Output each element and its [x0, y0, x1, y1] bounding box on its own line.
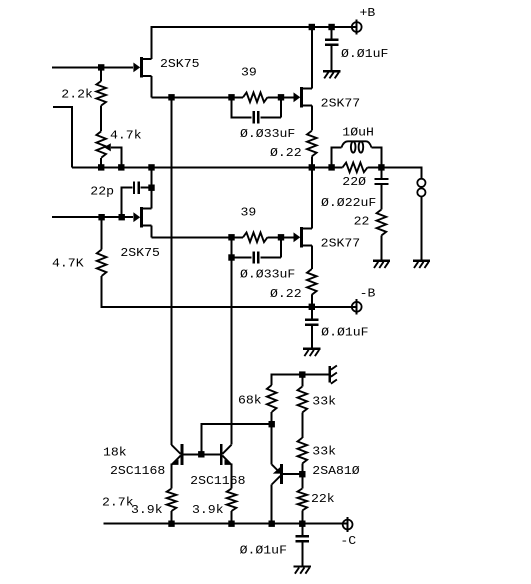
node +B junction dot 1 — [309, 24, 315, 30]
node bottom rail dot L — [228, 521, 234, 527]
resistor R4 220 — [343, 163, 368, 173]
wire 0.22 bottom lead — [311, 156, 313, 167]
wire bottom cap to ground — [301, 542, 303, 565]
inductor L1 10uH — [332, 141, 382, 167]
svg-text:3.9k: 3.9k — [192, 503, 224, 517]
wire FET1 source down — [151, 76, 153, 98]
wire cap to 22 resistor — [380, 185, 382, 210]
transistor Q4 2SK77 (lower) — [294, 227, 312, 248]
wire long vertical 1 — [171, 97, 173, 445]
wire left emitter down — [171, 464, 173, 489]
wire -B cap to ground — [311, 326, 313, 348]
resistor R12 3.9k (left) — [167, 489, 177, 512]
svg-text:18k: 18k — [103, 446, 127, 460]
resistor R1 2.2k — [96, 81, 106, 106]
transistor Q5 2SC1168 (left) — [171, 444, 182, 465]
svg-text:Ø.Ø33uF: Ø.Ø33uF — [240, 268, 295, 282]
svg-text:4.7K: 4.7K — [52, 257, 84, 271]
svg-text:Ø.22: Ø.22 — [270, 146, 302, 160]
node bottom rail dot N — [299, 521, 305, 527]
wire 3.9k left to rail — [171, 511, 173, 524]
wire long vertical 2 — [231, 237, 233, 444]
svg-text:2SC1168: 2SC1168 — [190, 474, 245, 488]
wire cap to ground — [331, 46, 333, 70]
svg-text:2SK75: 2SK75 — [160, 57, 200, 71]
node input1/2.2k dot — [98, 64, 104, 70]
wire pot wiper — [111, 147, 122, 167]
wire FET3 drain up — [311, 27, 313, 89]
capacitor 0.01uF (top) — [325, 40, 339, 45]
ground (bottom) — [294, 567, 311, 574]
wire FET4 drain up — [311, 167, 313, 228]
svg-text:1ØuH: 1ØuH — [342, 126, 374, 140]
svg-text:Ø.Ø1uF: Ø.Ø1uF — [240, 544, 287, 558]
wire 22k to rail — [301, 511, 303, 524]
pot wiper arrow — [104, 143, 111, 151]
svg-text:Ø.Ø33uF: Ø.Ø33uF — [240, 127, 295, 141]
wire 2SA810 collector down — [271, 485, 273, 524]
wire 39 right lead — [268, 96, 294, 98]
svg-text:39: 39 — [241, 206, 257, 220]
svg-text:22Ø: 22Ø — [342, 175, 366, 189]
svg-text:39: 39 — [241, 66, 257, 80]
node bracket dot — [228, 254, 234, 260]
transistor Q2 2SK75 (lower) — [133, 207, 151, 228]
wire pot bottom lead — [100, 158, 102, 168]
svg-text:-B: -B — [360, 287, 376, 301]
capacitor 0.033uF (lower) — [254, 251, 259, 263]
node gate bus dot D — [168, 94, 174, 100]
node rail dot A — [98, 164, 104, 170]
capacitor C 22p bracket left — [122, 188, 133, 218]
node lower gate bus dot J — [278, 234, 284, 240]
transistor Q1 2SK75 (upper) — [133, 57, 151, 78]
svg-text:Ø.22: Ø.22 — [270, 287, 302, 301]
node lower gate bus dot I — [228, 234, 234, 240]
resistor R9 68k — [267, 385, 277, 412]
node -B rail dot — [309, 304, 315, 310]
resistor R5 22 — [377, 210, 387, 236]
capacitor 22p — [134, 182, 139, 194]
svg-text:Ø.Ø1uF: Ø.Ø1uF — [341, 47, 388, 61]
wire FET2 source down — [151, 226, 153, 238]
wire 0.033uF bracket (upper) — [232, 97, 252, 117]
resistor R3 0.22 (upper) — [307, 131, 317, 157]
wire bottom cap lead — [301, 524, 303, 535]
capacitor 0.01uF (mid) — [305, 320, 319, 325]
svg-text:33k: 33k — [312, 394, 336, 408]
node rail dot inductor left — [328, 164, 334, 170]
wire 33k link — [301, 413, 303, 438]
svg-text:2.7k: 2.7k — [102, 496, 134, 510]
node 68k/wire dot — [269, 421, 275, 427]
wire bias feed — [201, 424, 271, 454]
node gate bus dot F — [278, 94, 284, 100]
node rail dot inductor right — [378, 164, 384, 170]
resistor R13 3.9k (right) — [227, 489, 237, 512]
ground (-B bypass) — [303, 349, 320, 356]
node 22p/drain dot — [148, 185, 154, 191]
wire 0.033uF bracket (lower) — [232, 257, 252, 259]
wire base bus — [183, 453, 220, 455]
ground (bias, rotated) — [330, 366, 337, 384]
node rail dot B — [118, 164, 124, 170]
node bias top dot — [299, 371, 305, 377]
wire 0.22 to -B rail — [311, 295, 313, 307]
svg-text:3.9k: 3.9k — [131, 503, 163, 517]
wire jack to ground — [420, 197, 422, 260]
wire bottom rail — [103, 523, 347, 525]
resistor R2 39 (upper) — [243, 93, 268, 103]
node bottom rail dot M — [269, 521, 275, 527]
output jack circle 2 — [417, 188, 425, 196]
resistor R8 0.22 (lower) — [307, 269, 317, 295]
resistor R7 39 (lower) — [243, 233, 268, 243]
svg-text:4.7k: 4.7k — [110, 129, 142, 143]
svg-text:2SK75: 2SK75 — [120, 246, 159, 260]
svg-text:Ø.Ø1uF: Ø.Ø1uF — [321, 326, 368, 340]
svg-text:22k: 22k — [311, 492, 335, 506]
capacitor 0.01uF (bottom) — [295, 536, 309, 541]
wire 2SA810 base — [283, 473, 303, 475]
wire 3.9k right to rail — [231, 511, 233, 524]
capacitor 0.033uF (upper) — [254, 111, 259, 123]
transistor Q6 2SC1168 (right) — [221, 444, 232, 465]
svg-text:68k: 68k — [238, 394, 262, 408]
node +B junction dot 2 — [328, 24, 334, 30]
wire rail to output — [368, 167, 422, 178]
wire 2.2k top lead — [100, 67, 102, 81]
resistor R11 33k (lower) — [298, 438, 308, 464]
wire lower gate bus y237 — [152, 236, 244, 238]
node rail dot FET3/4 — [309, 164, 315, 170]
wire 22 to ground — [380, 236, 382, 260]
svg-text:33k: 33k — [312, 445, 336, 459]
node input3 dot H — [119, 214, 125, 220]
ground (zobel) — [373, 261, 390, 268]
ground (output) — [413, 261, 430, 268]
svg-text:22p: 22p — [90, 185, 114, 199]
terminal -B — [352, 299, 362, 314]
node bottom rail dot K — [168, 521, 174, 527]
wire cap lead — [331, 27, 333, 39]
wire 4.7K to -B rail — [102, 276, 357, 307]
node input3 dot G — [98, 214, 104, 220]
capacitor 0.022uF — [375, 179, 389, 184]
svg-text:+B: +B — [360, 6, 376, 20]
svg-text:2.2k: 2.2k — [61, 88, 93, 102]
svg-text:2SK77: 2SK77 — [321, 236, 361, 250]
wire 2.2k to pot — [100, 106, 102, 132]
node 2SA810 base dot — [299, 471, 305, 477]
wire +B rail — [152, 27, 357, 59]
wire FET2 drain up to rail — [151, 167, 153, 208]
resistor R14 22k — [298, 489, 308, 511]
resistor R6 4.7K — [101, 217, 103, 249]
node base bus dot — [198, 451, 204, 457]
wire input 3 — [52, 216, 133, 218]
wire input 1 — [52, 66, 133, 68]
wire FET4 source down — [311, 246, 313, 269]
wire 39 lower right lead — [268, 236, 294, 238]
output jack circle 1 — [417, 179, 425, 187]
wire upper gate bus y97 — [152, 96, 244, 98]
wire 33k to base node — [301, 464, 303, 489]
terminal -C — [343, 517, 353, 532]
svg-text:-C: -C — [340, 534, 356, 548]
svg-text:2SA81Ø: 2SA81Ø — [312, 464, 359, 478]
ground (top bypass) — [323, 71, 340, 78]
svg-text:22: 22 — [354, 215, 370, 229]
wire zobel cap lead — [380, 167, 382, 178]
svg-text:Ø.Ø22uF: Ø.Ø22uF — [321, 196, 376, 210]
svg-text:2SC1168: 2SC1168 — [110, 464, 165, 478]
transistor Q7 2SA810 — [272, 464, 282, 485]
wire right emitter down — [231, 464, 233, 489]
wire bias top rail — [272, 375, 329, 385]
node gate bus dot E — [228, 94, 234, 100]
wire -B cap lead — [311, 307, 313, 319]
transistor Q3 2SK77 (upper) — [294, 87, 312, 108]
resistor VR1 4.7k pot — [96, 131, 106, 158]
wire mid rail left part — [72, 166, 342, 168]
wire 68k to emitter — [271, 412, 273, 464]
resistor R10 33k (upper) — [301, 375, 303, 387]
terminal +B — [352, 19, 362, 34]
node rail dot C — [148, 164, 154, 170]
wire FET3 source down — [311, 106, 313, 131]
svg-text:2SK77: 2SK77 — [321, 96, 361, 110]
wire input 2 — [53, 107, 72, 167]
